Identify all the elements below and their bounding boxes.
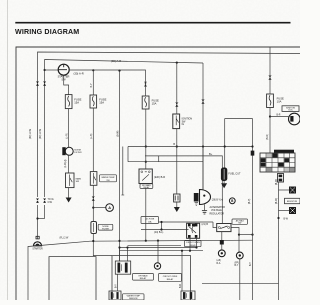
fuse F2 [142,96,149,109]
svg-text:IG: IG [182,123,185,126]
svg-text:RESISTOR: RESISTOR [287,201,298,203]
page left scan edge [7,0,9,300]
fail safe feed wire [224,119,226,168]
bus 1 left corner down [127,147,129,162]
wire below block down right side [278,182,280,300]
bottom box 2 [112,256,191,300]
off-page arrow [66,198,72,203]
svg-text:B+: B+ [209,152,213,156]
distributor ground wire [204,205,206,211]
bus stub vertical [158,156,160,162]
bus A y222 [159,221,214,223]
label box at bus A left [141,217,159,224]
svg-text:B-Y: B-Y [115,284,117,288]
alternator A1 [289,113,301,125]
alternator branch wire [269,115,271,117]
wire to C4 [181,251,183,291]
wire bus1 down to distributor [202,147,204,190]
bus line y245.3 [128,244,182,246]
svg-text:TO IG: TO IG [48,199,54,201]
wire below ignition switch [176,129,178,194]
svg-text:CIRCUIT OPEN: CIRCUIT OPEN [163,276,178,278]
bus line y247.5 [120,247,197,249]
fail safe relay R3 [217,224,231,232]
wire A-B merge junction [38,218,45,220]
distributor ground [202,211,207,214]
relay R3 right wire [231,228,239,253]
wire condenser to relay switch [68,155,70,173]
wire noise filter down to bottom box [93,234,112,256]
coil element ground [195,203,198,206]
circled terminal B [229,198,235,204]
svg-text:(B-W): (B-W) [276,198,278,204]
connector on F2 drop [145,82,147,84]
svg-text:(30) A-W: (30) A-W [39,128,42,139]
junction to test connector A [92,207,94,209]
svg-text:RELAY: RELAY [190,244,197,247]
ignition switch branch drop [176,63,178,114]
bottom box 1 [49,257,96,300]
fan switch label box [100,175,117,182]
label box L3 [123,294,145,300]
connector on right feed [269,76,271,78]
svg-text:RELAY: RELAY [167,278,174,281]
injector ground wire [176,202,178,207]
radiator fan switch SW3 [90,172,97,186]
junction dot with label B-W [277,217,279,219]
junction F2 wire at bus [145,145,147,147]
wire to terminal E [157,240,159,263]
svg-text:A: A [108,206,111,210]
wire to off-page arrow [68,188,70,198]
svg-text:(L-R(+)): (L-R(+)) [65,159,67,167]
wire to bottom-right vertical [239,234,253,236]
fail safe resistor [221,168,227,182]
svg-text:B-Y: B-Y [90,83,93,87]
svg-text:(28) B-Y(+): (28) B-Y(+) [212,199,223,201]
noise filter label box [98,224,113,230]
ignition switch box SW2 [173,114,180,129]
svg-text:A/C FUSE: A/C FUSE [145,218,155,221]
svg-text:B-Y: B-Y [250,262,252,266]
fail safe relay label box [232,219,248,224]
accessory fuse F0 branch from starter switch [64,75,69,94]
svg-text:STARTER: STARTER [32,248,43,251]
connector on wire B [44,199,46,201]
EFI relay label box [140,184,153,189]
upper connector on wire B [44,82,46,84]
svg-text:(EFI) B-R: (EFI) B-R [154,175,165,179]
EFI main relay R1 [139,169,152,184]
circuit opening relay label box [185,240,202,246]
relay R3 left wire [213,222,217,228]
svg-text:REGULATOR: REGULATOR [210,212,225,215]
connector on wire A [37,199,39,201]
wire below T2 [239,259,241,300]
svg-text:(B-Y): (B-Y) [249,199,251,205]
bus B y229.5 [141,229,189,231]
bus line 1 [128,146,253,148]
svg-text:WATER TEMP: WATER TEMP [101,176,115,179]
connector below fan switch [93,197,95,199]
fuse F3 [267,94,274,108]
ignition/starter switch SW1 [58,64,69,75]
svg-text:(L-R): (L-R) [66,133,69,139]
svg-text:MAIN: MAIN [76,177,82,180]
title rule [15,22,290,24]
fail safe ground wire [223,181,225,183]
svg-text:B-R: B-R [277,114,281,116]
svg-text:RELAY: RELAY [140,277,147,280]
bottom right horizontal wire [202,283,279,285]
junction on R3 output [238,234,240,236]
svg-text:WIRING DIAGRAM: WIRING DIAGRAM [15,28,79,36]
bus A-B link wire [161,222,163,230]
wire F3 to junction block [269,108,271,154]
relay R2 bottom wires [189,238,191,250]
diagram frame [16,47,300,300]
wire B feed [45,60,203,198]
wire F2 to EFI main relay [145,109,147,169]
ECM box corner wire [225,118,253,120]
noise filter component [91,222,97,234]
svg-text:(B-W): (B-W) [276,179,278,185]
svg-text:RELAY: RELAY [143,186,150,189]
svg-text:(30) A-R: (30) A-R [111,59,121,63]
svg-text:(FP): (FP) [235,262,240,264]
junction to fuse F1 wire [92,69,94,71]
svg-text:R-A: R-A [217,262,221,265]
label box L2 [159,274,182,282]
wires into C1 [119,248,121,262]
distributor D1 [200,190,211,205]
circled terminal A [106,204,114,212]
connector square below R3 [220,240,224,245]
bus line 2 B+ [145,156,222,224]
svg-text:FILTER: FILTER [102,228,109,230]
label box L1 [133,274,154,281]
svg-text:(B-W): (B-W) [116,130,119,137]
noise suppressor condenser [62,147,65,155]
terminal circle T1 [218,250,225,257]
suppressor stub wires [279,189,290,191]
svg-text:(30) A-W: (30) A-W [29,128,32,139]
EFI relay output wire [145,188,147,240]
svg-text:15A: 15A [152,101,157,105]
second center vertical wire [122,147,124,196]
wire fuse F1 to switch [92,108,94,172]
fuse F0 [65,95,72,109]
wire F0 down [68,109,70,148]
fuse F1 drop wire [92,70,94,95]
wire A from frame top-left [38,52,301,197]
center long vertical wire [119,71,121,262]
relay R2 top mark [192,224,195,227]
cold start injector INJ [174,194,180,202]
fail safe ground arrow [221,183,227,188]
starter motor M1 dome [34,242,42,246]
distributor coil element [194,193,199,202]
junction block JB1 grid [260,153,295,172]
wire C1 to C2 [117,275,119,292]
svg-text:FUEL CUT: FUEL CUT [228,173,241,176]
junction wire B to ignition branch [176,62,178,64]
junction connector block top header [274,150,294,153]
starter relay switch SW4 [66,173,75,188]
svg-text:SW: SW [238,223,241,225]
svg-text:(21) B: (21) B [202,223,209,226]
svg-text:(FL) 2 W: (FL) 2 W [60,238,70,240]
svg-text:15A: 15A [74,100,79,104]
bus line 3 [128,161,203,163]
wire from starter switch to fuse bus [69,70,145,96]
suppressor label box [285,198,301,203]
connector on right wire [202,100,204,102]
upper connector on wire A [37,82,39,84]
injector ground arrow [174,207,180,212]
svg-text:EFI MAIN: EFI MAIN [139,274,148,277]
svg-text:(24) B-L): (24) B-L) [154,231,164,234]
alternator label box [282,106,299,112]
circuit opening relay R2 [187,223,200,238]
svg-text:FILTER: FILTER [74,152,82,154]
svg-text:(+B): (+B) [217,260,222,262]
svg-text:10A: 10A [277,100,282,104]
svg-text:B-R: B-R [180,284,182,288]
bus line y250.7 [120,250,204,252]
connector C1 [115,261,130,274]
right feed wire from frame top [269,47,271,94]
long wire B right end down [202,63,204,190]
junction to center vertical wire [118,70,120,72]
below-block connector [278,174,284,183]
bus junctions [92,240,94,242]
terminal circle E [154,263,160,269]
wire below fan switch [92,185,94,221]
starter switch feed wire [44,69,46,71]
svg-text:(B-R): (B-R) [266,134,269,140]
fuse F1 [90,95,97,108]
connector C4 [181,291,195,300]
engine block / main bus line [28,240,253,300]
noise suppressor squares [289,187,296,194]
svg-text:B-Y: B-Y [235,265,239,267]
svg-text:(30) A-R: (30) A-R [74,72,84,76]
svg-text:(L-B): (L-B) [90,133,93,139]
connector C2 [109,291,121,300]
connector mark on right vertical [251,151,255,156]
right long vertical wire [252,119,254,301]
svg-text:15A: 15A [99,100,104,104]
wire B lower segment [44,205,46,219]
terminal circle T2 fuel pump [236,252,243,259]
svg-text:SW: SW [106,180,109,182]
wire A lower segment to starter motor [37,205,39,239]
connector on ignition branch [176,103,178,105]
